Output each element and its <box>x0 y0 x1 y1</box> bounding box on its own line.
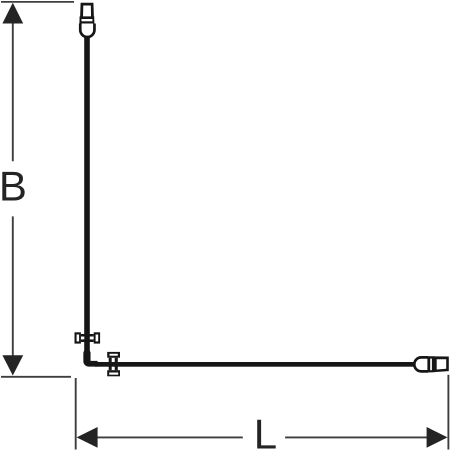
dimension B arrowhead up <box>2 3 23 24</box>
horizontal pipe <box>95 362 414 367</box>
right connector end rectangle interior <box>437 359 447 369</box>
valve on vertical pipe right cap <box>94 332 100 343</box>
svg-text:B: B <box>0 163 27 210</box>
valve on vertical pipe left cap slot <box>77 335 80 342</box>
top connector bulb <box>80 24 94 38</box>
valve on vertical pipe stem white core right <box>90 337 94 340</box>
valve on vertical pipe stem <box>81 334 94 342</box>
valve on vertical pipe left cap <box>75 332 81 343</box>
valve on horizontal pipe stem <box>109 358 118 371</box>
dimension L arrowhead left <box>77 427 98 448</box>
dimension B line upper segment <box>12 22 14 161</box>
pipe elbow <box>83 351 97 367</box>
valve on horizontal pipe bottom cap <box>107 370 120 376</box>
svg-text:L: L <box>254 410 277 450</box>
dimension B bottom extension line <box>1 376 71 378</box>
valve on vertical pipe right cap slot <box>96 335 99 342</box>
top connector upper rectangle interior <box>83 6 91 18</box>
dimension L left extension line <box>75 378 77 450</box>
dimension L arrowhead right <box>427 427 448 448</box>
dimension B line lower segment <box>12 216 14 356</box>
valve on horizontal pipe top cap <box>107 352 120 358</box>
valve on horizontal pipe bottom cap slot <box>109 373 118 375</box>
top connector band white gap <box>82 19 93 21</box>
dimension L line left segment <box>97 436 243 438</box>
dimension L right extension line <box>447 375 449 450</box>
valve on horizontal pipe stem white core top <box>112 358 115 362</box>
right connector band <box>427 356 434 372</box>
right connector band white gap <box>430 359 432 371</box>
top connector upper rectangle <box>80 3 94 18</box>
valve on horizontal pipe top cap slot <box>110 354 118 356</box>
dimension L line right segment <box>285 436 427 438</box>
dimension B top extension line <box>1 1 74 3</box>
valve on vertical pipe stem white core left <box>81 337 84 340</box>
dimension B arrowhead down <box>2 355 23 375</box>
right connector end rectangle <box>434 356 449 372</box>
valve on horizontal pipe stem white core bottom <box>112 367 115 371</box>
right connector bulb <box>414 357 428 371</box>
top connector band <box>79 16 94 23</box>
vertical pipe <box>84 35 90 352</box>
